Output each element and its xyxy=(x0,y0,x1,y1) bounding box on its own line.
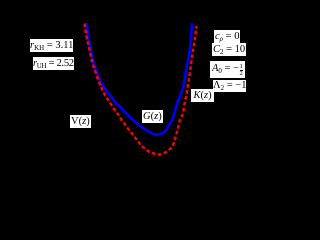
label box A_0 = -1/2 xyxy=(210,61,245,78)
label box r_KH = 3.11 xyxy=(30,39,73,52)
label box c_rho = 0 xyxy=(214,30,240,43)
label box Lambda_2 = -1 xyxy=(213,80,246,92)
label box C_2 = 10 xyxy=(212,43,246,56)
curve G(z) blue solid xyxy=(87,23,193,135)
curve V(z)=K(z) red dashed xyxy=(85,24,197,155)
label box K(z) xyxy=(191,89,214,102)
label box r_UH = 2.52 xyxy=(33,57,74,70)
label box G(z) xyxy=(142,110,163,123)
label box V(z) xyxy=(70,115,91,128)
